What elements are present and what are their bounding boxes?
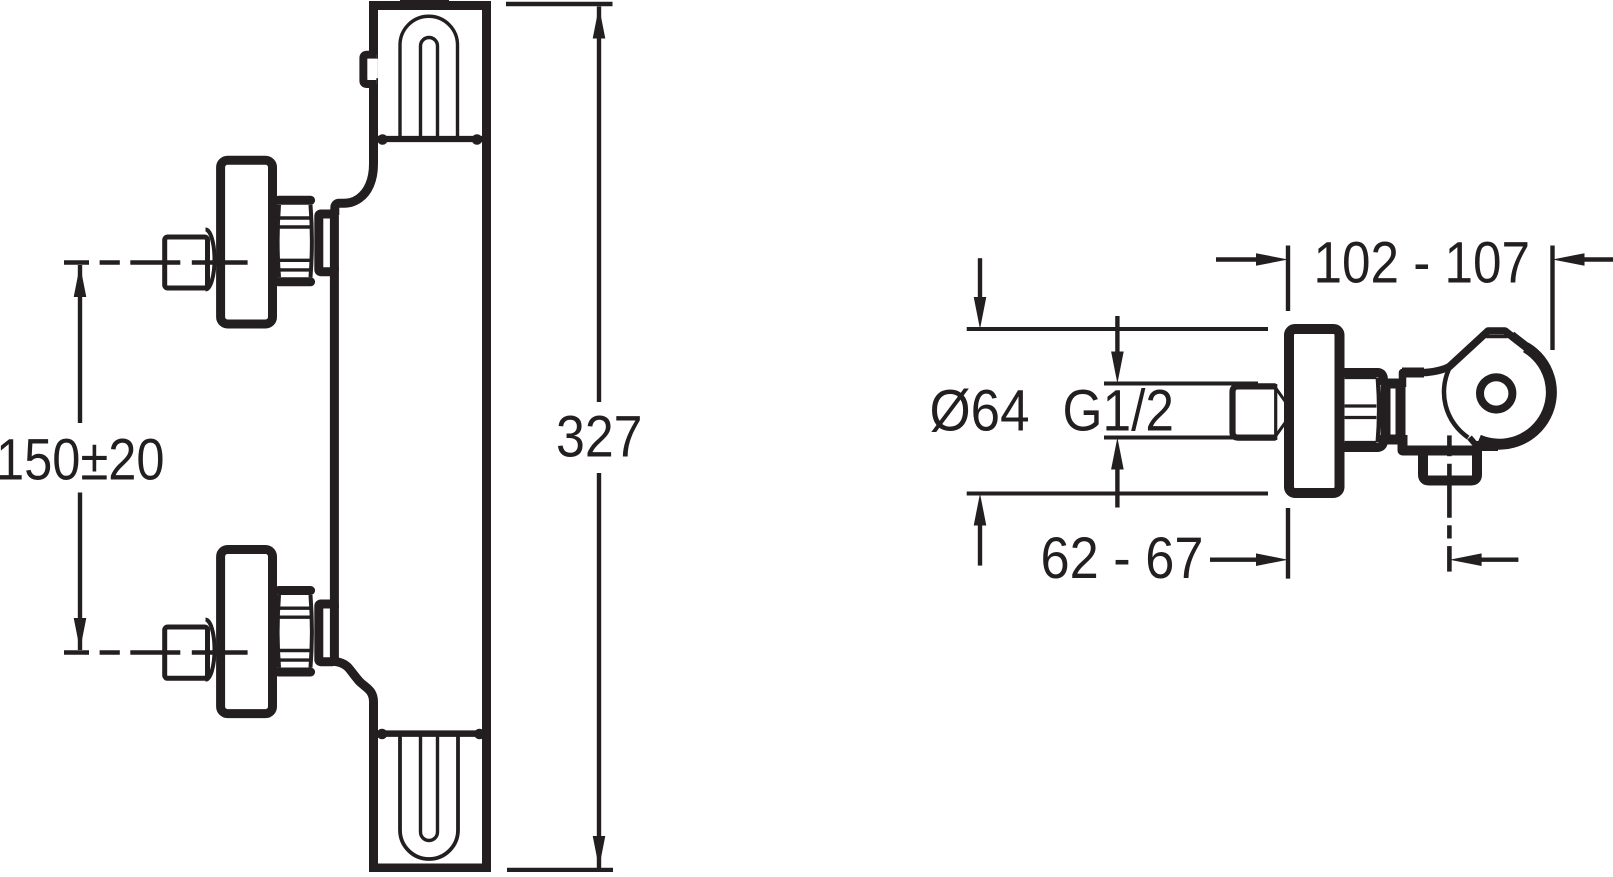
svg-text:150±20: 150±20 [0,428,165,493]
svg-text:62 - 67: 62 - 67 [1041,526,1204,591]
svg-text:327: 327 [556,405,642,470]
svg-text:Ø64: Ø64 [930,379,1030,444]
svg-text:102 - 107: 102 - 107 [1313,231,1530,296]
svg-text:G1/2: G1/2 [1063,379,1175,444]
